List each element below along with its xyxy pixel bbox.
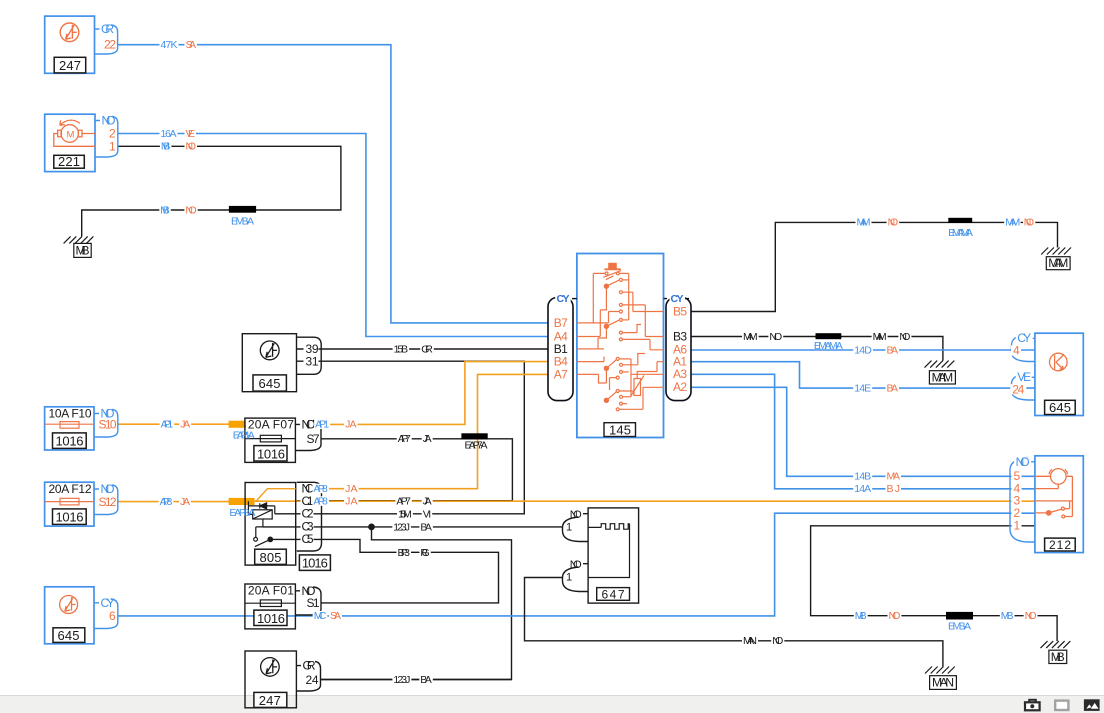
svg-text:1016: 1016	[56, 510, 84, 525]
svg-text:AP1: AP1	[315, 419, 329, 431]
svg-text:MB: MB	[855, 610, 867, 622]
svg-text:MC: MC	[314, 610, 327, 622]
wire AP8-JA (F12/S12 to splice EAP8-A)	[118, 501, 229, 503]
label MAN-NO	[742, 635, 784, 647]
svg-text:BJ: BJ	[887, 483, 901, 495]
svg-text:JA: JA	[423, 433, 432, 445]
svg-text:BA: BA	[420, 521, 432, 533]
svg-text:S7: S7	[307, 432, 320, 446]
svg-text:A7: A7	[554, 367, 568, 381]
svg-text:123J: 123J	[393, 521, 410, 533]
647 internal resistor zigzag	[588, 524, 629, 578]
label AP8-JA (left F12) + splice label EAP8-A	[159, 496, 256, 519]
svg-text:AP8: AP8	[313, 483, 328, 495]
splice EAP8-A	[229, 498, 255, 505]
svg-text:NO: NO	[899, 331, 910, 343]
label MB-NO (221 pin1)	[160, 141, 197, 153]
svg-text:NO: NO	[1024, 217, 1034, 229]
svg-text:4: 4	[1013, 344, 1020, 358]
svg-text:1016: 1016	[257, 446, 285, 461]
svg-text:B7: B7	[554, 316, 568, 330]
label 15M-VI	[397, 508, 432, 520]
svg-text:S10: S10	[99, 418, 117, 432]
svg-text:AP8: AP8	[160, 496, 173, 508]
wire BP3-RG (relay C5 to F01/S1)	[270, 539, 498, 603]
svg-text:VI: VI	[423, 508, 432, 520]
svg-text:20A F12: 20A F12	[49, 482, 92, 496]
splice EMAM-A top	[948, 218, 972, 223]
svg-text:1016: 1016	[257, 611, 285, 626]
label 123J-BA	[392, 521, 433, 533]
toolbar bar bottom	[0, 696, 1104, 713]
label 15B-GR	[393, 343, 434, 355]
svg-text:647: 647	[602, 587, 625, 601]
svg-text:S12: S12	[99, 495, 117, 509]
svg-text:NO: NO	[570, 509, 582, 521]
label AP8-JA (relay NO row)	[312, 483, 358, 495]
svg-text:645: 645	[259, 376, 281, 391]
145 internal mechanism	[577, 263, 664, 410]
svg-text:NO: NO	[1016, 455, 1030, 469]
svg-text:NO: NO	[888, 217, 899, 229]
wire MAM-NO (145/B5 to ground MAM top right via splice EMAM-A)	[691, 222, 1058, 311]
svg-text:SA: SA	[186, 39, 197, 51]
component relay 805	[245, 483, 296, 566]
svg-text:805: 805	[260, 550, 282, 565]
component 221 (wiper motor)	[45, 114, 118, 172]
svg-text:14D: 14D	[854, 344, 872, 356]
svg-text:1016: 1016	[56, 434, 84, 449]
component 645 mid (instrument cluster)	[242, 334, 321, 392]
svg-text:NO: NO	[1025, 610, 1037, 622]
svg-text:C2: C2	[302, 507, 314, 521]
svg-text:CY: CY	[101, 596, 115, 610]
svg-text:1: 1	[566, 521, 572, 533]
label AP8-JA (relay C1 row)	[312, 496, 358, 508]
svg-text:A2: A2	[673, 380, 687, 394]
svg-text:6: 6	[109, 609, 116, 623]
svg-text:EMB-A: EMB-A	[948, 621, 971, 633]
label MB-NO (ground row) + splice EMB-A	[159, 204, 254, 227]
label MAM-NO x2 (B3 row) + splice label EMAM-A	[742, 331, 911, 352]
wire MC-SA (645/6 to 212/2)	[118, 513, 1035, 616]
svg-text:AP8: AP8	[313, 496, 328, 508]
wire 47K-SA (247/22 to 145/B7)	[118, 45, 548, 323]
svg-text:BA: BA	[887, 344, 899, 356]
wire 14E-BA (145/A1 to 645/24)	[691, 362, 1035, 388]
svg-text:24: 24	[1012, 383, 1024, 397]
wire 16A-VE (221/2 to 145/A4)	[118, 134, 548, 337]
svg-text:VE: VE	[186, 128, 196, 140]
svg-text:NO: NO	[772, 635, 783, 647]
toolbar icons	[1025, 699, 1100, 711]
svg-text:EMAM-A: EMAM-A	[948, 227, 973, 239]
label AP1-JA + splice label EAP1-A	[160, 419, 255, 442]
component 645 right (clock)	[1010, 331, 1083, 416]
ground MAN bottom	[925, 667, 956, 690]
svg-text:MAM: MAM	[1048, 256, 1068, 270]
svg-text:M: M	[67, 130, 75, 141]
wire MB-NO (212/1 to ground MB right via splice EMB-A)	[811, 526, 1058, 641]
svg-text:JA: JA	[345, 483, 357, 495]
svg-text:C5: C5	[302, 532, 314, 546]
label AP7-JA (C1 row right)	[395, 496, 432, 508]
svg-text:247: 247	[59, 58, 81, 73]
svg-text:GR: GR	[421, 343, 433, 355]
wire AP7-JA (F07/S7 via splice EAP7-A to relay C1)	[297, 439, 513, 501]
647 top connector	[563, 514, 589, 542]
camera icon	[1025, 700, 1040, 711]
svg-text:NO: NO	[185, 204, 196, 216]
wire 15B-GR (645/39 to 145/B1)	[297, 348, 549, 350]
svg-text:BP3: BP3	[398, 547, 411, 559]
wire MAN-NO (647 pin1 bottom to ground MAN)	[525, 578, 943, 667]
wire 14B-MA (145/A2 to 212/5)	[691, 387, 1035, 476]
svg-text:EMB-A: EMB-A	[231, 215, 254, 227]
svg-text:NO: NO	[102, 114, 116, 128]
647 bottom connector	[563, 564, 589, 592]
svg-text:145: 145	[609, 422, 631, 437]
svg-text:JA: JA	[180, 496, 190, 508]
svg-text:15M: 15M	[398, 508, 412, 520]
svg-text:14A: 14A	[854, 483, 871, 495]
svg-text:MB: MB	[1001, 610, 1014, 622]
svg-text:MAM: MAM	[873, 331, 887, 343]
svg-text:NO: NO	[570, 559, 582, 571]
svg-text:B3: B3	[673, 330, 687, 344]
svg-text:B5: B5	[673, 304, 687, 318]
wire 15M-VI (645/31 to relay C2)	[275, 361, 525, 514]
WIRE LABELS	[159, 39, 1038, 686]
junction dot 123J	[368, 524, 375, 531]
svg-text:1: 1	[109, 139, 116, 153]
label 123J-BA (bottom row)	[392, 674, 432, 686]
component 247 top-left (instrument panel)	[45, 16, 118, 73]
splice EAP1-A	[229, 421, 246, 428]
wire AP8-JA (relay NO to 145/A7)	[321, 374, 548, 488]
svg-text:BA: BA	[887, 382, 899, 394]
component 212 (rear wiper motor)	[1010, 455, 1083, 553]
component fuse 20A F07	[245, 417, 321, 462]
svg-text:1016: 1016	[302, 556, 328, 571]
svg-text:GR: GR	[303, 659, 316, 673]
component 645 bottom-left	[45, 587, 118, 644]
svg-text:BA: BA	[420, 674, 432, 686]
svg-text:16A: 16A	[161, 128, 177, 140]
label MC-SA	[313, 610, 342, 622]
145 right connector CY	[664, 293, 692, 400]
label AP1-JA (at F07 NO)	[314, 419, 357, 431]
ground MAM top right	[1041, 248, 1071, 271]
svg-text:GR: GR	[101, 22, 114, 36]
SPLICES	[229, 206, 973, 620]
component fuse 20A F12	[45, 482, 118, 526]
wire MAM-NO (145/B3 to ground MAM via splice EMAM-A)	[691, 337, 943, 361]
component 247 bottom	[245, 651, 321, 708]
component fuse 20A F01	[245, 583, 321, 629]
splice EMAM-A mid	[816, 333, 842, 339]
label BP3-RG	[397, 547, 431, 559]
svg-text:RG: RG	[420, 547, 429, 559]
svg-text:EAP8-A: EAP8-A	[229, 507, 255, 519]
svg-text:10A F10: 10A F10	[49, 407, 92, 421]
square icon	[1055, 701, 1068, 710]
svg-text:JA: JA	[423, 496, 432, 508]
wire AP1-JA (F10/S10 to splice EAP1-A)	[118, 423, 229, 425]
label 47K-SA	[160, 39, 198, 51]
relay switch	[256, 519, 263, 537]
svg-text:14B: 14B	[854, 471, 871, 483]
svg-text:CY: CY	[671, 293, 684, 305]
svg-text:31: 31	[306, 354, 319, 368]
svg-text:JA: JA	[345, 419, 356, 431]
component 145 (steering column switch)	[548, 254, 691, 438]
svg-text:JA: JA	[345, 496, 357, 508]
svg-text:MB: MB	[161, 141, 171, 153]
svg-text:JA: JA	[180, 419, 190, 431]
svg-text:MAN: MAN	[743, 635, 757, 647]
label 14D-BA	[853, 344, 899, 356]
svg-text:MA: MA	[887, 471, 901, 483]
ground MB left	[64, 236, 94, 257]
svg-text:123J: 123J	[393, 674, 410, 686]
splice EAP7-A	[461, 433, 487, 439]
svg-text:NO: NO	[186, 141, 197, 153]
svg-text:22: 22	[104, 38, 116, 52]
label MB-NO x2 (bottom right row) + splice label EMB-A	[854, 610, 1038, 633]
label MAM-NO x2 (top right row) + splice label EMAM-A	[856, 217, 1036, 239]
svg-text:SA: SA	[330, 610, 341, 622]
svg-text:NO: NO	[101, 482, 115, 496]
svg-text:NO: NO	[889, 610, 901, 622]
svg-text:645: 645	[58, 628, 80, 643]
svg-text:MAN: MAN	[932, 676, 954, 690]
svg-text:221: 221	[58, 154, 80, 169]
connector 1016 of relay	[297, 482, 331, 571]
svg-text:NO: NO	[302, 417, 316, 431]
svg-text:MAM: MAM	[932, 370, 954, 384]
svg-text:20A F01: 20A F01	[248, 583, 294, 597]
svg-text:47K: 47K	[161, 39, 178, 51]
145 left connector CY	[548, 293, 577, 400]
svg-text:AP7: AP7	[398, 433, 411, 445]
svg-text:20A F07: 20A F07	[248, 418, 294, 432]
relay coil and diode	[248, 501, 252, 514]
image icon	[1084, 699, 1100, 711]
svg-text:1: 1	[1014, 519, 1021, 533]
svg-text:MB: MB	[160, 204, 170, 216]
svg-text:S1: S1	[307, 596, 320, 610]
relay feed from splice	[254, 489, 295, 502]
svg-text:15B: 15B	[394, 343, 409, 355]
wire 123J-BA (bottom 247/24 row)	[321, 679, 512, 681]
label 16A-VE	[160, 128, 197, 140]
splice EMB-A left	[229, 206, 256, 213]
svg-text:247: 247	[259, 693, 281, 708]
svg-text:14E: 14E	[854, 382, 871, 394]
svg-text:24: 24	[306, 673, 319, 687]
GROUNDS	[64, 236, 1071, 689]
svg-text:AP1: AP1	[161, 419, 174, 431]
svg-text:MAM: MAM	[743, 331, 758, 343]
wire MB-NO (221/1 to ground MB via splice EMB-A)	[82, 146, 341, 236]
label 14B-MA	[853, 471, 901, 483]
svg-text:A3: A3	[673, 367, 687, 381]
wire 123J-BA (relay C3 to 647 pin1 top, junction to 247/24)	[263, 526, 563, 528]
svg-text:MAM: MAM	[857, 217, 871, 229]
svg-text:EMAM-A: EMAM-A	[814, 340, 843, 352]
svg-text:MB: MB	[1051, 650, 1065, 664]
svg-text:645: 645	[1049, 400, 1071, 415]
splice EMB-A right	[946, 612, 973, 620]
component fuse 10A F10	[45, 407, 118, 451]
svg-text:AP7: AP7	[396, 496, 411, 508]
svg-text:CY: CY	[557, 293, 570, 305]
wire AP1-JA (F07/NO to 145/B4)	[321, 362, 548, 425]
svg-text:1: 1	[566, 571, 572, 583]
label 14A-BJ	[853, 483, 901, 495]
svg-text:NO: NO	[769, 331, 782, 343]
svg-text:MAM: MAM	[1005, 217, 1020, 229]
ground MAM mid	[925, 361, 956, 385]
label 14E-BA	[853, 382, 899, 394]
component 647 (timer unit)	[563, 508, 639, 603]
svg-text:EAP7-A: EAP7-A	[465, 439, 488, 451]
label AP7-JA + splice label EAP7-A	[397, 433, 488, 451]
wire 14A-BJ (145/A3 to 212/4)	[691, 374, 1035, 489]
svg-text:212: 212	[1049, 538, 1071, 552]
svg-text:EAP1-A: EAP1-A	[233, 429, 255, 441]
wire AP8-JA long (splice EAP8-A through relay to 212/3)	[254, 500, 1035, 502]
svg-text:MB: MB	[76, 244, 90, 258]
ground MB right	[1041, 641, 1071, 664]
wire 14D-BA (145/A6 to 645/4)	[691, 349, 1035, 351]
